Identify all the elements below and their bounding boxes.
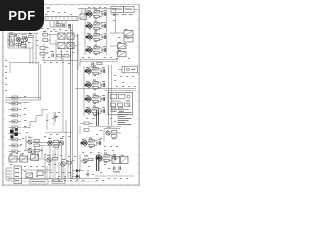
resistor R1	[21, 45, 26, 47]
resistor RQ7a	[93, 94, 98, 98]
wire	[50, 34, 78, 70]
relay K7	[9, 154, 17, 162]
wire	[8, 170, 100, 181]
transformer T3	[9, 32, 14, 46]
wire	[91, 69, 105, 74]
ground	[86, 170, 89, 176]
resistor RQ11a	[104, 153, 109, 157]
resistor R21	[26, 173, 33, 178]
wire	[7, 30, 38, 64]
capacitor C22	[113, 166, 121, 172]
transistor Q10	[80, 139, 87, 147]
wire	[91, 83, 105, 88]
capacitor CQ8	[102, 107, 104, 113]
resistor RQ10b	[89, 144, 94, 148]
resistor RQ5b	[93, 72, 98, 76]
transistor Q18	[59, 138, 63, 178]
PDF badge	[0, 0, 44, 31]
transistor Q17	[48, 138, 59, 178]
resistor RQ6b	[93, 86, 98, 90]
relay K5	[58, 42, 65, 48]
transistor Q4	[85, 46, 92, 54]
resistor RQ3a	[94, 32, 99, 36]
connector J2	[9, 102, 22, 105]
capacitor CQ11	[113, 154, 115, 160]
wire	[110, 44, 118, 55]
capacitor CQ4	[103, 46, 105, 52]
connector J9	[9, 144, 22, 147]
relay K3	[58, 33, 65, 39]
wire	[97, 110, 99, 171]
resistor R17	[97, 62, 102, 64]
connector J4	[9, 114, 22, 117]
wire	[10, 56, 66, 160]
diode D1	[42, 31, 50, 36]
wire	[5, 98, 41, 103]
resistor RQ6a	[93, 80, 98, 84]
transistor Q5	[84, 67, 91, 75]
capacitor C31	[63, 23, 64, 26]
resistor R29	[80, 126, 89, 134]
wire	[47, 150, 73, 179]
connector J7	[9, 132, 22, 135]
transistor Q11	[95, 154, 102, 162]
diode D3	[72, 169, 84, 172]
transistor Q3	[85, 33, 92, 41]
resistor RQ2b	[94, 27, 99, 31]
transistor Q1	[85, 10, 92, 18]
capacitor C4	[16, 34, 17, 37]
wire	[91, 97, 105, 102]
capacitor C2	[51, 51, 54, 57]
resistor RQ4a	[94, 45, 99, 49]
wire	[22, 110, 48, 128]
resistor RQ2a	[94, 21, 99, 25]
wire	[80, 60, 118, 67]
resistor R3	[40, 46, 48, 49]
connector J8	[9, 138, 22, 141]
resistor RQ5a	[93, 66, 98, 70]
transformer T2	[120, 155, 128, 164]
bus bar TB1	[45, 17, 78, 21]
wire	[42, 44, 78, 61]
resistor R2	[29, 33, 34, 37]
wire	[91, 109, 105, 114]
resistor RQ7b	[93, 100, 98, 104]
wire	[92, 12, 106, 17]
node GND1	[52, 180, 65, 184]
capacitor CQ10	[98, 139, 100, 145]
wire	[102, 156, 116, 161]
wire	[33, 143, 63, 158]
connector J10	[9, 150, 22, 153]
resistor R6	[64, 54, 69, 57]
transistor Q19	[45, 154, 58, 178]
resistor RQ3b	[94, 38, 99, 42]
resistor R22	[37, 171, 43, 176]
ground	[10, 128, 18, 138]
connector J6	[9, 126, 22, 129]
resistor R42	[118, 50, 126, 57]
resistor R28	[80, 122, 93, 125]
relay K8	[20, 154, 28, 162]
capacitor CQ5	[102, 67, 104, 73]
wire	[45, 112, 121, 178]
resistor R5	[57, 54, 62, 57]
op-amp U1	[108, 92, 133, 114]
wire	[92, 35, 106, 40]
transistor Q13	[16, 37, 20, 47]
connector J12	[6, 168, 12, 180]
wire	[95, 175, 134, 177]
node labels	[5, 7, 136, 181]
resistor R31	[56, 21, 61, 26]
connector J5	[9, 120, 22, 123]
capacitor CQ1	[103, 10, 105, 16]
diode D5	[21, 41, 24, 44]
wire	[8, 158, 45, 160]
inductor L1	[124, 29, 133, 36]
resistor RQ11b	[104, 159, 109, 163]
connector J11	[14, 166, 22, 184]
transistor Q6	[84, 81, 91, 89]
resistor RQ10a	[89, 138, 94, 142]
node REV	[113, 13, 133, 16]
transistor Q14	[23, 37, 27, 47]
node B	[47, 7, 50, 10]
resistor RQ4b	[94, 51, 99, 55]
relay K1	[80, 14, 86, 19]
wire	[92, 24, 106, 29]
wire	[85, 8, 124, 55]
resistor RQ1a	[94, 9, 99, 13]
relay K2	[118, 66, 138, 73]
transistor Q8	[84, 107, 91, 115]
diode D2	[42, 39, 50, 42]
inductor L2	[124, 36, 133, 42]
wire	[50, 21, 66, 28]
capacitor CQ2	[103, 22, 105, 28]
transistor Q7	[84, 95, 91, 103]
transformer T1	[112, 155, 120, 164]
resistor RQ8b	[93, 112, 98, 116]
wire	[71, 24, 78, 180]
transistor Q20	[61, 159, 72, 178]
capacitor C12	[54, 112, 57, 122]
resistor RQ1b	[94, 15, 99, 19]
resistor R41	[118, 42, 126, 49]
resistor R8	[22, 36, 26, 38]
relay K9	[31, 153, 39, 161]
diode D4	[72, 175, 79, 178]
connector J9	[111, 6, 124, 12]
wire	[75, 89, 136, 91]
capacitor CQ7	[102, 95, 104, 101]
relay K4	[67, 33, 74, 39]
transistor Q2	[85, 22, 92, 30]
connector J10	[124, 6, 139, 12]
resistor RQ8a	[93, 106, 98, 110]
relay K6	[67, 42, 74, 48]
connector J1	[9, 96, 22, 99]
transistor Q9	[104, 127, 121, 142]
wire	[78, 9, 116, 15]
wire	[87, 141, 101, 146]
wire	[84, 65, 112, 126]
resistor R4	[40, 52, 48, 55]
capacitor CQ6	[102, 81, 104, 87]
resistor R7	[16, 44, 21, 46]
node TITLE	[30, 179, 48, 184]
capacitor CQ3	[103, 33, 105, 39]
transistor Q16	[28, 148, 43, 152]
capacitor C7	[91, 63, 94, 68]
node NOTES	[118, 112, 132, 125]
connector J3	[9, 108, 22, 111]
transistor Q12	[80, 155, 93, 170]
node T3	[68, 24, 71, 28]
wire	[92, 48, 106, 53]
transistor Q15	[26, 136, 39, 150]
